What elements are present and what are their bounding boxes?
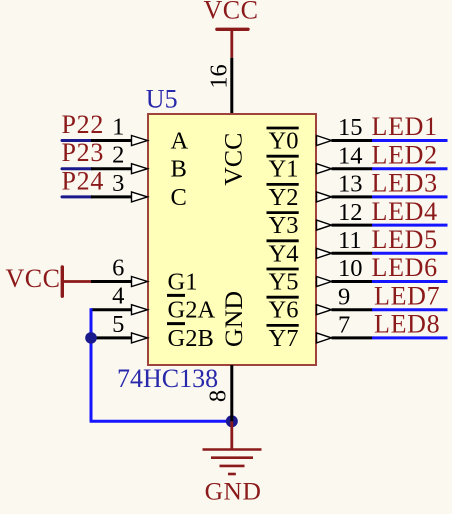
svg-text:LED2: LED2 [372,140,438,169]
svg-text:Y7: Y7 [269,325,299,352]
pin 9 (Y6) [317,283,373,314]
svg-text:Y0: Y0 [269,128,299,155]
pin 15 (Y0) [317,114,373,145]
pin 14 (Y1) [317,142,373,173]
svg-text:7: 7 [338,312,350,339]
svg-text:14: 14 [338,142,363,169]
svg-text:P22: P22 [62,110,105,139]
svg-text:13: 13 [338,171,363,198]
svg-text:LED6: LED6 [372,253,438,282]
svg-text:C: C [171,184,187,211]
svg-text:1: 1 [112,114,124,141]
power symbol VCC (top) [204,0,259,58]
pin name Y4 with overbar [267,240,299,267]
pin name G2B with overbar on G [167,324,214,352]
svg-text:B: B [171,156,187,183]
wire net LED1 [372,139,448,142]
wire net LED7 [372,308,448,311]
wire net LED8 [372,336,448,339]
pin name Y3 with overbar [267,212,299,239]
svg-text:5: 5 [112,311,124,338]
pin 16 (VCC) wire [230,58,233,114]
svg-text:LED4: LED4 [372,197,438,226]
pin 1 [91,114,148,146]
svg-text:LED1: LED1 [372,112,438,141]
pin name Y0 with overbar [267,128,299,155]
svg-text:LED5: LED5 [372,225,438,254]
svg-text:P23: P23 [62,138,105,167]
svg-text:VCC: VCC [6,264,61,293]
svg-text:U5: U5 [146,85,178,114]
pin 10 (Y5) [317,255,373,286]
svg-text:Y2: Y2 [269,184,299,211]
svg-text:Y5: Y5 [269,269,299,296]
svg-text:11: 11 [338,227,362,254]
wire net LED5 [372,252,448,255]
svg-text:12: 12 [338,199,363,226]
svg-text:G1: G1 [168,269,198,296]
wire net P23 [62,167,92,170]
svg-text:15: 15 [338,114,363,141]
svg-text:Y3: Y3 [269,212,299,239]
pin 5 (G2B) [91,311,148,343]
power symbol VCC (left) [6,264,93,296]
pin 6 (G1) [91,255,148,287]
wire net LED6 [372,280,448,283]
wire net P24 [62,195,92,198]
svg-text:LED8: LED8 [374,310,440,339]
pin name Y6 with overbar [267,297,299,324]
svg-text:P24: P24 [62,166,105,195]
pin 13 (Y2) [317,171,373,202]
wire net LED2 [372,167,448,170]
svg-text:Y4: Y4 [269,240,299,267]
pin name Y2 with overbar [267,184,299,211]
pin 3 [91,170,148,202]
pin 8 (GND) wire [230,365,233,421]
svg-text:10: 10 [338,255,363,282]
svg-text:LED7: LED7 [374,281,440,310]
svg-text:16: 16 [206,64,233,89]
svg-text:9: 9 [338,283,350,310]
wire G2A/G2B to ground net (vertical) [90,308,93,421]
svg-text:LED3: LED3 [372,169,438,198]
svg-text:G2B: G2B [168,325,214,352]
wire net LED4 [372,224,448,227]
svg-text:74HC138: 74HC138 [117,364,218,393]
svg-text:VCC: VCC [204,0,259,25]
svg-text:G2A: G2A [168,297,216,324]
svg-text:GND: GND [219,291,248,347]
svg-text:4: 4 [112,283,124,310]
ground symbol GND [203,421,262,505]
svg-text:8: 8 [205,390,232,402]
svg-text:Y1: Y1 [269,156,299,183]
junction at GND pin [226,415,238,427]
pin name Y7 with overbar [267,325,299,352]
wire net LED3 [372,195,448,198]
IC U5 74HC138 body [148,114,316,365]
svg-text:Y6: Y6 [269,297,299,324]
wire net P22 [62,139,92,142]
pin 2 [91,142,148,174]
pin 4 (G2A) [91,283,148,315]
svg-text:VCC: VCC [219,133,248,186]
junction at pin 5 [85,332,97,344]
wire ground net (horizontal) [90,420,232,423]
svg-text:A: A [171,128,189,155]
pin name Y1 with overbar [267,156,299,183]
pin name Y5 with overbar [267,269,299,296]
svg-text:GND: GND [205,476,262,505]
svg-text:6: 6 [112,255,124,282]
pin 7 (Y7) [317,312,373,343]
pin 11 (Y4) [317,227,373,258]
svg-text:2: 2 [112,142,124,169]
svg-text:3: 3 [112,170,124,197]
pin 12 (Y3) [317,199,373,230]
pin name G2A with overbar on G [167,295,215,323]
